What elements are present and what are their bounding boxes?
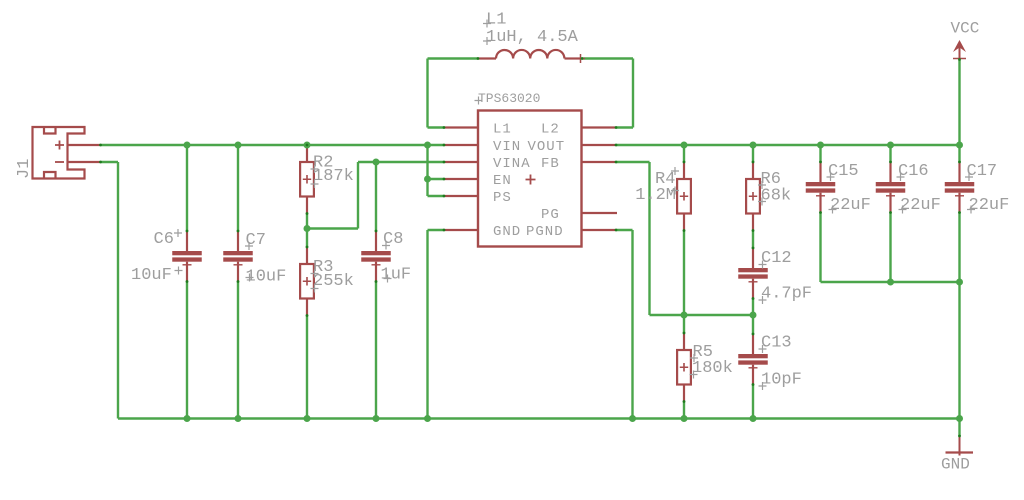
wire FB vertical bbox=[648, 162, 650, 315]
wire C13 top lead bbox=[752, 315, 754, 334]
label C15 value bbox=[829, 196, 871, 215]
label C6 value bbox=[131, 266, 183, 285]
label R2 value bbox=[311, 167, 354, 188]
pin GND of U1 bbox=[444, 229, 478, 231]
svg-text:PG: PG bbox=[541, 207, 560, 223]
wire VOUT bus bbox=[616, 144, 960, 146]
label C13 value bbox=[759, 371, 802, 390]
capacitor C12 bbox=[738, 248, 768, 299]
junction C16/VOUT bus bbox=[887, 142, 894, 149]
svg-text:C6: C6 bbox=[154, 230, 174, 249]
ground symbol GND bbox=[946, 436, 974, 456]
svg-text:C16: C16 bbox=[898, 162, 929, 181]
label R6 value bbox=[758, 187, 791, 206]
svg-text:L1: L1 bbox=[486, 11, 506, 30]
wire to PS pin bbox=[428, 195, 445, 197]
wire R5 top lead bbox=[683, 315, 685, 333]
wire inductor top right bbox=[582, 57, 633, 59]
svg-text:VINA: VINA bbox=[493, 156, 531, 172]
pin VIN of U1 bbox=[444, 144, 478, 146]
label R4 value bbox=[635, 186, 679, 205]
label C12 value bbox=[759, 285, 813, 304]
wire J1- vertical down bbox=[117, 162, 119, 419]
junction VIN corner bbox=[424, 142, 431, 149]
label net GND bbox=[941, 456, 970, 474]
junction C12/C13/FB bbox=[750, 312, 757, 319]
capacitor C17 bbox=[945, 162, 975, 213]
svg-text:22uF: 22uF bbox=[830, 196, 871, 215]
svg-text:GND: GND bbox=[493, 224, 521, 240]
pin PS of U1 bbox=[444, 195, 478, 197]
wire R4 top lead bbox=[683, 145, 685, 162]
wire VIN bus: J1+ to VIN pin bbox=[101, 144, 445, 146]
svg-text:VOUT: VOUT bbox=[528, 139, 566, 155]
wire C8 top lead bbox=[375, 162, 377, 231]
label C17 name bbox=[965, 162, 997, 181]
svg-text:EN: EN bbox=[493, 173, 512, 189]
junction GND tap bbox=[956, 415, 963, 422]
junction R3/GND bus bbox=[304, 415, 311, 422]
op-amp U1 TPS63020 box bbox=[478, 111, 582, 247]
wire output cap bottom rail bbox=[821, 281, 960, 283]
label R4 name bbox=[655, 167, 679, 189]
pin connection points bbox=[99, 57, 961, 437]
label R3 value bbox=[311, 272, 354, 292]
wire PGND vertical down bbox=[631, 230, 633, 419]
label C16 name bbox=[897, 162, 929, 181]
svg-text:68k: 68k bbox=[761, 187, 792, 206]
wire VIN vertical to EN/PS bbox=[426, 145, 428, 196]
resistor R4 bbox=[677, 162, 691, 231]
wire R6 to C12 bbox=[752, 231, 754, 249]
svg-text:L1: L1 bbox=[493, 122, 512, 138]
svg-text:255k: 255k bbox=[313, 272, 354, 291]
svg-text:180k: 180k bbox=[692, 359, 733, 378]
pin PG of U1 (unconnected) bbox=[582, 212, 618, 214]
wire C16 bottom lead bbox=[889, 213, 891, 283]
junction EN bbox=[424, 176, 431, 183]
svg-text:PS: PS bbox=[493, 190, 512, 206]
label C7 value bbox=[246, 268, 287, 287]
wire GND pin horizontal bbox=[428, 229, 445, 231]
junction C16 rail bbox=[887, 279, 894, 286]
svg-text:1uH, 4.5A: 1uH, 4.5A bbox=[486, 28, 579, 47]
wire FB horizontal bbox=[616, 161, 650, 163]
capacitor C13 bbox=[738, 334, 768, 385]
label C8 value bbox=[381, 266, 412, 285]
wire C12 bottom lead bbox=[752, 299, 754, 316]
label C6 name bbox=[154, 229, 183, 249]
label U1 name TPS63020 bbox=[475, 91, 541, 106]
svg-text:VIN: VIN bbox=[493, 139, 521, 155]
pin EN of U1 bbox=[444, 178, 478, 180]
svg-text:4.7pF: 4.7pF bbox=[761, 285, 812, 304]
label L1 value bbox=[483, 28, 579, 47]
svg-text:L2: L2 bbox=[541, 122, 560, 138]
junction R4/VOUT bus bbox=[681, 142, 688, 149]
junction R6/VOUT bus bbox=[750, 142, 757, 149]
label R2 name bbox=[311, 154, 334, 173]
wire C6 bottom lead bbox=[186, 282, 188, 419]
wire C17 top lead bbox=[958, 145, 960, 162]
wire C7 top lead bbox=[237, 145, 239, 231]
label L1 name bbox=[483, 11, 506, 30]
label C12 name bbox=[759, 249, 792, 268]
wire C13 bottom lead bbox=[752, 385, 754, 419]
svg-text:C15: C15 bbox=[828, 162, 859, 181]
svg-text:C12: C12 bbox=[761, 249, 792, 268]
wire to GND symbol bbox=[958, 419, 960, 437]
svg-text:PGND: PGND bbox=[526, 224, 564, 240]
connector J1 battery jack bbox=[33, 127, 101, 179]
junction R4/R5/FB bbox=[681, 312, 688, 319]
wire inductor top left bbox=[428, 57, 479, 59]
svg-text:187k: 187k bbox=[313, 167, 354, 186]
label R5 value bbox=[690, 359, 733, 378]
label C17 value bbox=[967, 196, 1009, 215]
wire C17 bottom lead bbox=[958, 213, 960, 283]
wire R2 bottom to node bbox=[306, 214, 308, 229]
svg-text:22uF: 22uF bbox=[900, 196, 941, 215]
wire C6 top lead bbox=[186, 145, 188, 231]
pin PGND of U1 bbox=[582, 229, 617, 231]
wire FB node row bbox=[650, 314, 754, 316]
junction C13/GND bus bbox=[750, 415, 757, 422]
junction C8/VINA bbox=[373, 159, 380, 166]
U1 origin cross bbox=[526, 175, 536, 185]
capacitor C16 bbox=[876, 162, 906, 213]
resistor R6 bbox=[746, 162, 760, 231]
svg-text:1uF: 1uF bbox=[381, 266, 412, 285]
wire R5 bottom lead bbox=[683, 402, 685, 419]
label C8 name bbox=[382, 230, 403, 249]
junction C7/VIN bus bbox=[235, 142, 242, 149]
wire GND pin vertical down bbox=[426, 230, 428, 419]
wire VINA vertical bbox=[357, 162, 359, 229]
label J1 name (rotated) bbox=[15, 159, 34, 179]
wire C15 top lead bbox=[819, 145, 821, 162]
wire VINA to pin bbox=[358, 161, 444, 163]
capacitor C8 bbox=[361, 231, 391, 282]
wire R6 top lead bbox=[752, 145, 754, 162]
junction U1 GND/bus bbox=[424, 415, 431, 422]
wire C15 bottom lead bbox=[819, 213, 821, 283]
capacitor C6 bbox=[172, 231, 202, 282]
power symbol VCC bbox=[953, 40, 966, 60]
wire rail down to bottom bus bbox=[958, 282, 960, 419]
junction C6/GND bus bbox=[184, 415, 191, 422]
label C15 name bbox=[827, 162, 859, 181]
wire PGND horizontal bbox=[616, 229, 633, 231]
svg-text:FB: FB bbox=[541, 156, 560, 172]
junction R2/VIN bus bbox=[304, 142, 311, 149]
wire GND bottom bus bbox=[118, 417, 960, 419]
label C16 value bbox=[899, 196, 941, 215]
junction C8/GND bus bbox=[373, 415, 380, 422]
svg-text:C17: C17 bbox=[967, 162, 998, 181]
label R6 name bbox=[758, 170, 781, 189]
junction PGND/bus bbox=[629, 415, 636, 422]
pin VINA of U1 bbox=[444, 161, 478, 163]
wire R4 bottom lead bbox=[683, 231, 685, 316]
capacitor C15 bbox=[806, 162, 836, 213]
pin VOUT of U1 bbox=[582, 144, 617, 146]
svg-text:J1: J1 bbox=[15, 159, 34, 179]
capacitor C7 bbox=[223, 231, 253, 282]
label net VCC bbox=[951, 20, 980, 38]
wire inductor right vertical bbox=[632, 59, 634, 128]
label R5 name bbox=[690, 343, 713, 362]
svg-text:GND: GND bbox=[941, 456, 970, 474]
inductor L1 bbox=[478, 50, 585, 63]
svg-text:VCC: VCC bbox=[951, 20, 980, 38]
junction R2/R3/VINA bbox=[304, 225, 311, 232]
wire to EN pin bbox=[428, 178, 445, 180]
junction C6/VIN bus bbox=[184, 142, 191, 149]
label C13 name bbox=[759, 334, 792, 353]
svg-text:C13: C13 bbox=[761, 334, 792, 353]
wire to L1 pin bbox=[428, 126, 445, 128]
wire VINA horizontal lower bbox=[307, 227, 358, 229]
wire C7 bottom lead bbox=[237, 282, 239, 419]
svg-text:10uF: 10uF bbox=[131, 266, 172, 285]
resistor R3 bbox=[300, 247, 314, 316]
resistor R5 bbox=[677, 333, 691, 402]
pin L2 of U1 bbox=[582, 126, 617, 128]
wire VCC vertical bbox=[958, 60, 960, 145]
svg-text:10pF: 10pF bbox=[761, 371, 802, 390]
junction C7/GND bus bbox=[235, 415, 242, 422]
wire R3 bottom lead bbox=[306, 316, 308, 419]
pin L1 of U1 bbox=[444, 126, 478, 128]
wire C16 top lead bbox=[889, 145, 891, 162]
junction C15/VOUT bus bbox=[817, 142, 824, 149]
svg-text:TPS63020: TPS63020 bbox=[478, 91, 540, 106]
label R3 name bbox=[311, 258, 334, 277]
wire C8 bottom lead bbox=[375, 282, 377, 419]
wire J1- horizontal bbox=[101, 161, 119, 163]
wire inductor left vertical bbox=[426, 59, 428, 128]
resistor R2 bbox=[300, 145, 314, 214]
wire node to R3 top bbox=[306, 229, 308, 248]
junction R5/GND bus bbox=[681, 415, 688, 422]
svg-text:1.2M: 1.2M bbox=[635, 186, 676, 205]
label C7 name bbox=[245, 231, 266, 250]
wire to L2 pin bbox=[616, 126, 633, 128]
svg-text:22uF: 22uF bbox=[969, 196, 1010, 215]
junction C17/VCC bbox=[956, 142, 963, 149]
pin FB of U1 bbox=[582, 161, 617, 163]
junction C17 rail bbox=[956, 279, 963, 286]
